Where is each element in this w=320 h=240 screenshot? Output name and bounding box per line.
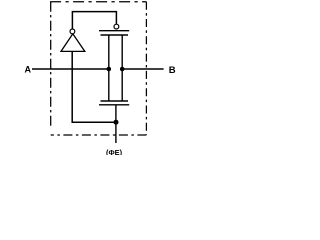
transistor Q2 gate bar	[99, 104, 129, 106]
transistor Q2 channel bar	[101, 100, 129, 102]
inverter U1 output bubble	[70, 29, 75, 34]
control junction dot	[114, 120, 119, 125]
enclosure dashed box bottom edge	[51, 134, 147, 136]
enclosure dashed box right edge	[145, 2, 147, 135]
wire control junction to clock input	[115, 122, 117, 143]
transistor Q2 right leg	[121, 69, 123, 101]
inverter U1 triangle	[61, 34, 85, 52]
enclosure dashed box top edge	[50, 1, 146, 3]
enclosure dashed box left edge	[50, 2, 52, 126]
transistor Q1 right leg	[121, 35, 123, 69]
transistor Q1 gate bubble (PMOS)	[114, 24, 119, 29]
transistor Q1 channel bar	[101, 34, 129, 36]
wire right junction to node B	[122, 68, 163, 70]
junction dot right (B side)	[120, 67, 125, 72]
svg-text:A: A	[25, 64, 32, 74]
wire node A to left junction	[32, 68, 109, 70]
svg-text:(ΦE): (ΦE)	[106, 148, 123, 155]
wire inverter output to Q1 gate	[72, 12, 116, 29]
svg-text:B: B	[169, 65, 176, 76]
transistor Q1 gate bar	[99, 30, 129, 32]
transistor Q2 left leg	[108, 69, 110, 101]
junction dot left (A side)	[107, 67, 112, 72]
wire Q2 gate to control junction	[115, 105, 117, 122]
wire inverter input from control junction	[72, 51, 116, 122]
transistor Q1 left leg	[108, 35, 110, 69]
